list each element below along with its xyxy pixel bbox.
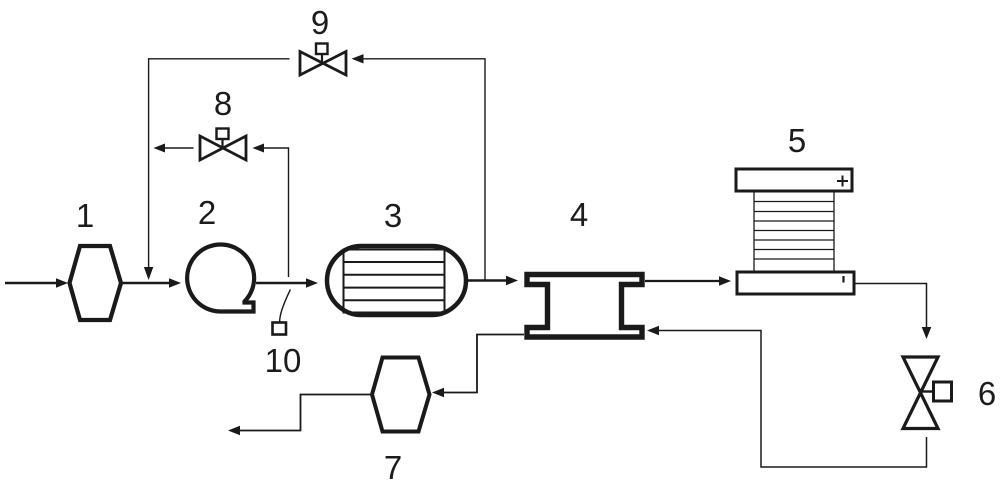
svg-text:2: 2	[198, 194, 216, 231]
wire: 5 to valve 6	[854, 284, 927, 328]
wire: 4 to 5	[645, 280, 719, 282]
svg-text:6: 6	[978, 375, 996, 412]
svg-text:1: 1	[76, 197, 94, 234]
sensor 10	[273, 323, 287, 335]
svg-text:3: 3	[384, 197, 402, 234]
valve 9	[300, 52, 346, 76]
fuel cell stack 5	[736, 169, 852, 191]
wire: 3 to 4	[468, 279, 506, 281]
wire: recirculation branch to valve 9	[363, 59, 486, 281]
wire: 1 to 2	[121, 282, 169, 284]
svg-text:7: 7	[384, 449, 402, 483]
wire: 2 to 3	[256, 282, 306, 284]
svg-text:8: 8	[214, 85, 232, 122]
plus terminal mark	[837, 176, 848, 187]
svg-text:10: 10	[265, 342, 302, 379]
wire: valve 6 return to 4	[659, 331, 927, 468]
wire: inlet line	[5, 282, 57, 284]
wire: sensor 10 to valve 8	[261, 148, 289, 277]
filter 1	[70, 246, 122, 320]
humidifier 4	[527, 275, 642, 338]
valve 8	[200, 136, 246, 160]
heat exchanger 3	[327, 246, 466, 315]
separator 7	[372, 358, 430, 432]
wire: valve 9 to main line	[149, 59, 290, 268]
svg-text:4: 4	[570, 196, 588, 233]
wire: outlet from 7	[240, 395, 372, 431]
wire: valve 8 outlet	[162, 147, 194, 149]
valve 6	[903, 357, 938, 429]
svg-text:5: 5	[788, 122, 806, 159]
blower 2	[187, 245, 254, 312]
minus terminal mark	[842, 276, 844, 283]
svg-text:9: 9	[311, 4, 329, 41]
wire: 4 to 7	[444, 335, 524, 393]
